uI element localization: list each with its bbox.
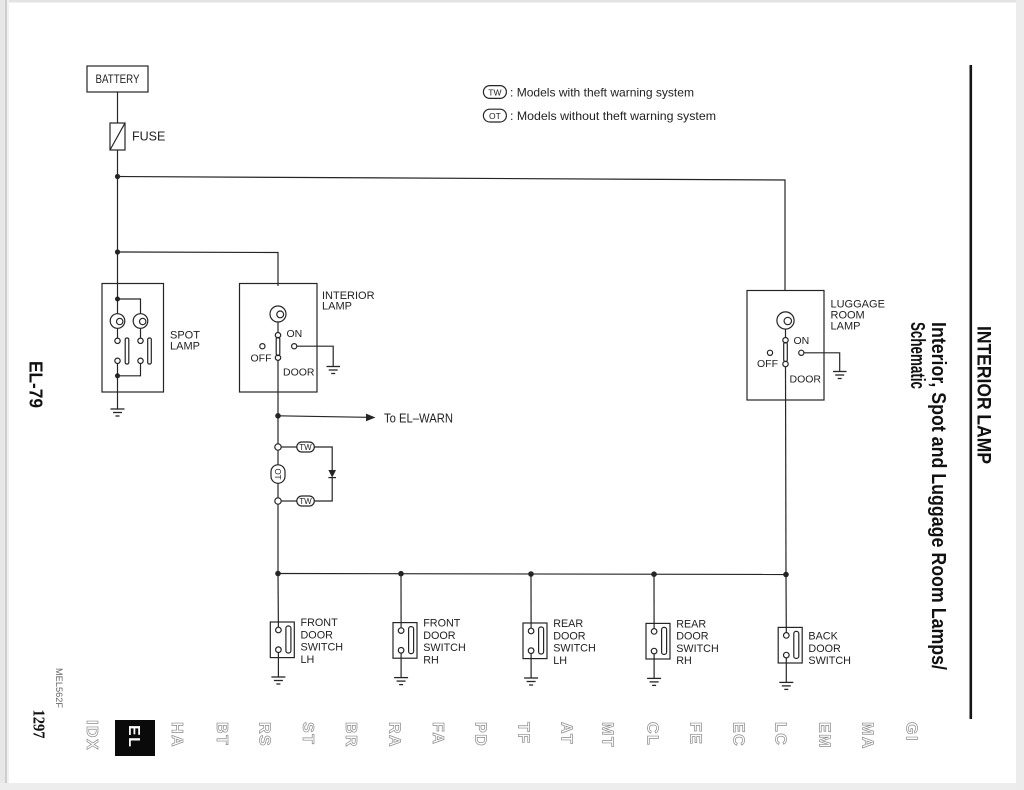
switch luggage DOOR contact	[783, 361, 788, 366]
svg-text:MT: MT	[598, 722, 615, 748]
wire fuse down to spot lamp branch	[117, 150, 119, 284]
svg-text:FA: FA	[429, 722, 446, 745]
svg-text:Schematic: Schematic	[906, 322, 928, 389]
junction bus 1	[275, 571, 281, 577]
contact spot right lower	[138, 358, 143, 363]
wire bus to front LH switch	[277, 574, 279, 628]
wire bus to rear RH switch	[653, 574, 655, 628]
door switch front LH	[270, 617, 343, 666]
wire right lower contact to junction	[118, 364, 141, 376]
svg-text:ON: ON	[287, 328, 303, 340]
svg-text:SWITCH: SWITCH	[808, 655, 851, 667]
node lower connector circle	[275, 498, 281, 504]
interior lamp assembly	[240, 284, 375, 393]
svg-text:MEL562F: MEL562F	[54, 668, 64, 709]
svg-text:SWITCH: SWITCH	[301, 642, 344, 654]
svg-text:LAMP: LAMP	[831, 321, 861, 333]
svg-text:FUSE: FUSE	[132, 130, 165, 144]
sidebar rule	[970, 65, 973, 719]
fuse F	[110, 123, 165, 150]
legend connector OT	[483, 109, 716, 123]
contact DOOR luggage	[799, 350, 804, 355]
wire interior switch down and out of box	[277, 360, 279, 444]
battery B	[87, 66, 148, 92]
lamp bulb luggage	[777, 312, 794, 329]
svg-text:DOOR: DOOR	[790, 374, 822, 386]
svg-text:DOOR: DOOR	[423, 630, 456, 642]
ground rear LH switch	[524, 678, 538, 685]
wire branch to right spot bulb	[118, 299, 141, 314]
ground front RH switch	[394, 678, 408, 685]
switch interior bar	[276, 338, 280, 356]
svg-text:ON: ON	[794, 335, 810, 347]
ground rear RH switch	[647, 678, 661, 685]
ground spot lamp	[111, 409, 125, 416]
svg-text:FE: FE	[686, 722, 703, 745]
switch luggage ON contact	[783, 338, 788, 343]
svg-text:DOOR: DOOR	[676, 631, 709, 643]
door switch front RH	[393, 618, 466, 667]
svg-text:Interior, Spot and Luggage Roo: Interior, Spot and Luggage Room Lamps/	[927, 322, 949, 670]
svg-text:DOOR: DOOR	[553, 630, 586, 642]
ground luggage lamp	[833, 372, 847, 379]
svg-text:GI: GI	[902, 722, 919, 742]
page scan edges (decorative)	[0, 0, 1024, 3]
contact spot left lower	[115, 358, 120, 363]
svg-text:INTERIOR LAMP: INTERIOR LAMP	[973, 326, 995, 464]
wire bus to front RH switch	[400, 574, 402, 628]
ground interior lamp	[327, 367, 341, 374]
svg-text:LAMP: LAMP	[170, 341, 200, 353]
wire interior bulb to switch	[277, 322, 279, 333]
wire top bus to luggage lamp	[118, 177, 786, 292]
connector TW upper	[297, 442, 315, 452]
connector OT (vertical)	[271, 465, 285, 484]
wire to EL-WARN with arrowhead	[278, 412, 453, 426]
svg-text:LAMP: LAMP	[322, 301, 352, 313]
wire node to TW upper	[281, 446, 297, 448]
svg-text:PD: PD	[471, 722, 488, 747]
wire right bulb to contact	[140, 328, 142, 338]
contact spot right upper	[138, 338, 143, 343]
svg-text:TW: TW	[299, 443, 312, 452]
wire back switch to ground	[785, 658, 787, 683]
wire bus to rear LH switch	[530, 574, 532, 628]
wire lower node to TW lower	[281, 500, 297, 502]
wire TW upper to diode	[314, 447, 332, 470]
svg-text:BT: BT	[213, 722, 230, 746]
junction bus 4	[651, 571, 657, 577]
wire spot lamp to ground	[117, 392, 119, 409]
wire luggage door contact to ground	[804, 353, 840, 371]
contact DOOR interior	[292, 344, 297, 349]
svg-text:OFF: OFF	[251, 353, 272, 365]
diode D	[328, 470, 336, 478]
svg-text:EL: EL	[125, 725, 142, 748]
svg-text:RA: RA	[385, 722, 402, 748]
wire front LH switch to ground	[277, 653, 279, 678]
ground back switch	[779, 682, 793, 689]
junction main feed	[115, 174, 120, 179]
switch interior DOOR contact (moving)	[275, 355, 280, 360]
contact OFF luggage	[767, 350, 772, 355]
lamp bulb interior	[270, 306, 286, 322]
svg-text:OFF: OFF	[757, 358, 778, 370]
lamp bulb spot left	[110, 314, 125, 329]
svg-text:RS: RS	[255, 722, 272, 747]
junction spot return	[115, 373, 120, 378]
svg-text:REAR: REAR	[676, 618, 706, 630]
svg-text:OT: OT	[489, 111, 501, 121]
svg-text:HA: HA	[168, 722, 185, 748]
lamp bulb spot right	[133, 314, 148, 329]
door switch rear LH	[523, 618, 596, 667]
svg-text:: Models with theft warning sy: : Models with theft warning system	[510, 86, 694, 100]
svg-text:AT: AT	[557, 722, 574, 745]
svg-text:MA: MA	[858, 722, 875, 750]
svg-text:ST: ST	[299, 722, 316, 745]
svg-text:BR: BR	[342, 722, 359, 748]
wire interior door contact to ground	[297, 346, 333, 366]
svg-text:OT: OT	[273, 468, 282, 479]
switch bar spot left	[125, 338, 129, 364]
svg-text:BATTERY: BATTERY	[96, 72, 140, 86]
wire rear RH switch to ground	[653, 654, 655, 679]
switch interior ON contact	[275, 333, 280, 338]
luggage room lamp assembly	[747, 291, 885, 401]
svg-text:: Models without theft warning: : Models without theft warning system	[510, 109, 716, 123]
ground front LH switch	[271, 677, 285, 684]
tab EL active	[115, 720, 155, 756]
svg-text:TF: TF	[514, 722, 531, 745]
svg-text:DOOR: DOOR	[283, 367, 315, 379]
contact spot left upper	[115, 338, 120, 343]
wire tap to interior lamp	[118, 252, 279, 286]
svg-text:1297: 1297	[30, 710, 49, 739]
svg-text:RH: RH	[676, 655, 692, 667]
svg-text:LH: LH	[553, 655, 567, 667]
wire into spot lamp	[117, 284, 119, 314]
svg-text:REAR: REAR	[553, 618, 583, 630]
wire front RH switch to ground	[400, 653, 402, 678]
svg-text:RH: RH	[423, 654, 439, 666]
svg-text:EM: EM	[815, 722, 832, 749]
door switch rear RH	[646, 618, 719, 667]
wire OT to lower node	[277, 483, 279, 498]
wire diode to TW lower	[314, 478, 332, 501]
svg-text:LC: LC	[771, 722, 788, 746]
junction bus 3	[528, 571, 534, 577]
wire door switch bus	[278, 574, 786, 575]
switch bar spot right	[148, 338, 152, 364]
wire luggage bulb to switch	[785, 329, 787, 337]
svg-text:DOOR: DOOR	[808, 643, 841, 655]
wire left lower contact down	[117, 364, 119, 393]
wire lower node to door bus	[277, 504, 279, 573]
junction bus 2	[398, 571, 404, 577]
svg-text:To EL–WARN: To EL–WARN	[384, 412, 453, 426]
switch luggage bar	[784, 343, 788, 362]
spot lamp assembly	[102, 284, 200, 393]
wire battery to fuse	[117, 92, 119, 123]
svg-text:FRONT: FRONT	[301, 617, 339, 629]
wire left bulb to contact	[117, 328, 119, 338]
svg-text:EC: EC	[729, 722, 746, 747]
svg-text:IDX: IDX	[83, 720, 100, 751]
svg-text:FRONT: FRONT	[423, 618, 461, 630]
junction spot branch	[115, 297, 120, 302]
junction interior tap	[115, 249, 120, 254]
node upper connector circle	[275, 444, 281, 450]
svg-text:SWITCH: SWITCH	[423, 642, 466, 654]
svg-text:SWITCH: SWITCH	[676, 643, 719, 655]
wire rear LH switch to ground	[530, 654, 532, 679]
svg-text:BACK: BACK	[808, 631, 838, 643]
contact OFF interior	[260, 344, 265, 349]
svg-text:SWITCH: SWITCH	[553, 643, 596, 655]
svg-text:TW: TW	[488, 88, 501, 98]
door switch back	[778, 627, 851, 667]
connector TW lower	[297, 496, 315, 506]
svg-text:EL-79: EL-79	[26, 361, 47, 408]
wire bus to back switch	[785, 575, 787, 633]
wire luggage switch down to bus	[785, 367, 788, 575]
junction EL-WARN tap	[275, 413, 281, 419]
svg-text:LH: LH	[301, 654, 315, 666]
junction bus 5	[783, 572, 789, 578]
svg-text:CL: CL	[643, 722, 660, 746]
wire node to OT	[277, 450, 279, 465]
legend connector TW	[483, 86, 694, 100]
svg-text:DOOR: DOOR	[301, 629, 334, 641]
svg-text:TW: TW	[299, 497, 312, 506]
